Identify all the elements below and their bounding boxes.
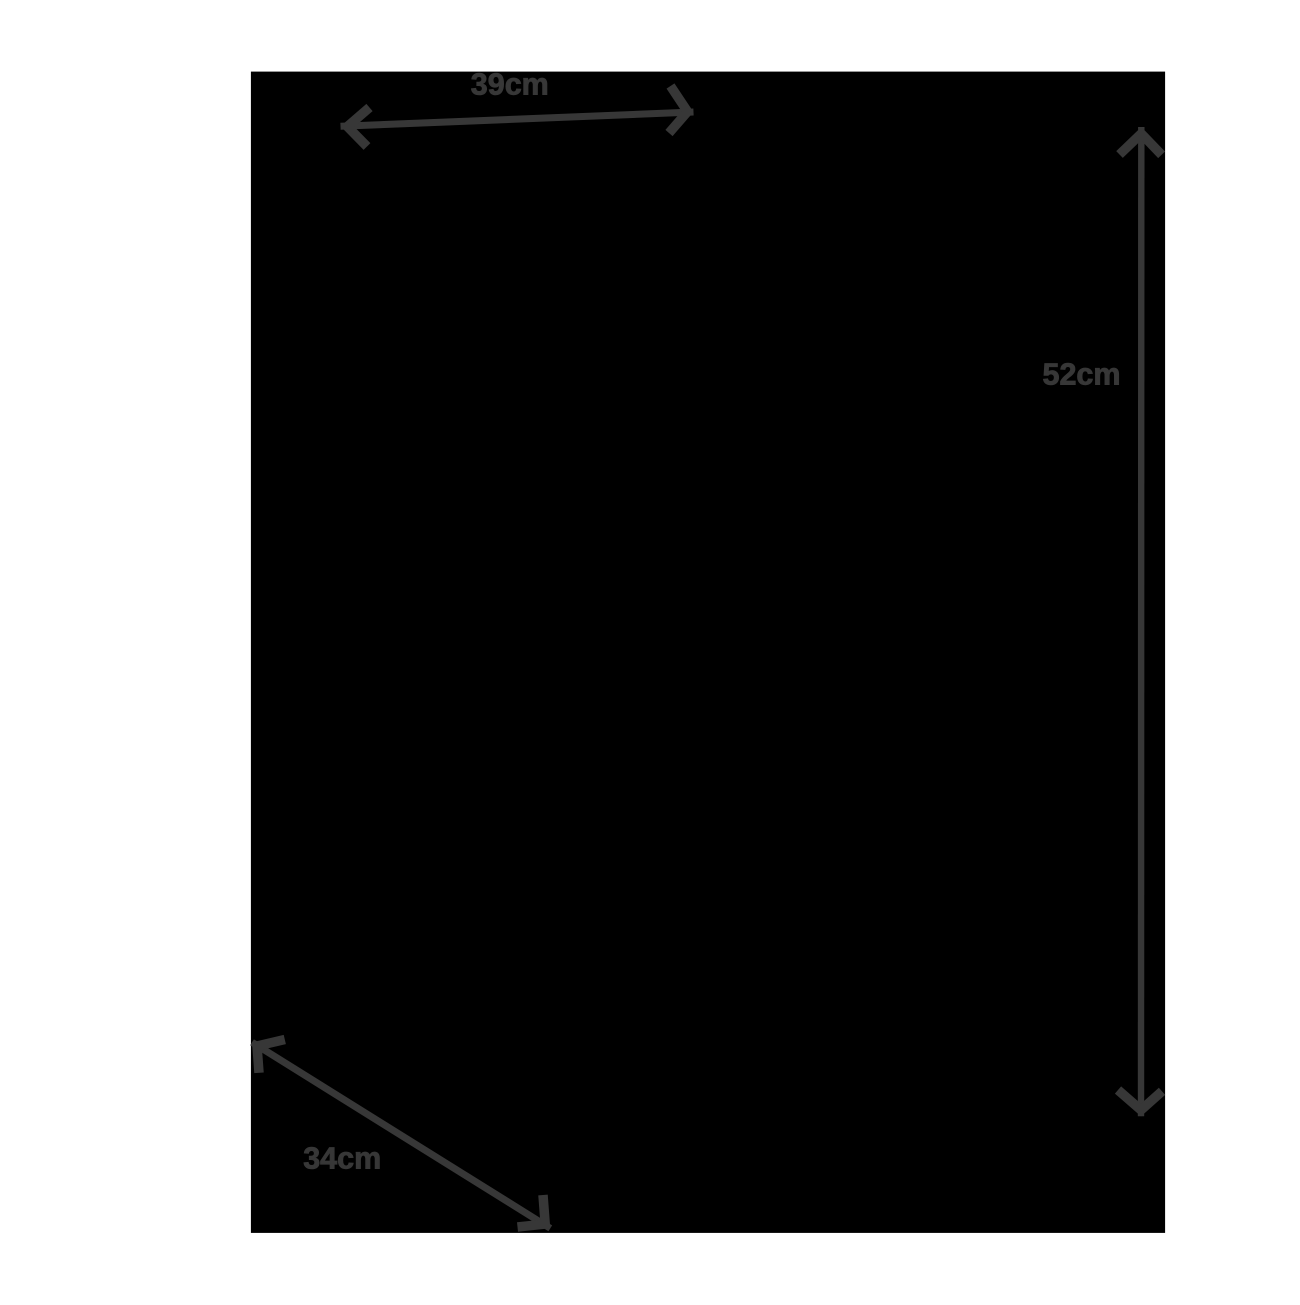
svg-text:52cm: 52cm xyxy=(1042,357,1120,391)
svg-text:34cm: 34cm xyxy=(303,1142,381,1176)
svg-text:39cm: 39cm xyxy=(471,67,549,101)
